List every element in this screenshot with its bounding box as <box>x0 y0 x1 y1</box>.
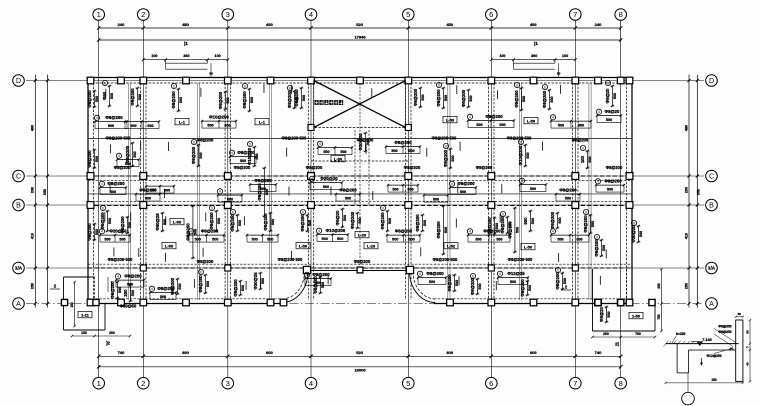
right dimension lines <box>688 75 690 308</box>
top dimension tier 1 <box>99 27 621 29</box>
svg-text:500: 500 <box>104 238 110 242</box>
svg-text:B: B <box>709 203 714 210</box>
rebar annotation (vertical) <box>447 274 459 292</box>
svg-text:500: 500 <box>499 123 505 127</box>
svg-text:500: 500 <box>469 95 473 101</box>
svg-text:Φ8@200: Φ8@200 <box>105 115 123 120</box>
beam tag <box>255 118 269 124</box>
svg-text:500: 500 <box>388 218 392 224</box>
svg-text:7: 7 <box>573 10 577 19</box>
column <box>308 77 315 84</box>
rebar annotation (vertical) <box>230 209 242 232</box>
column <box>405 125 411 131</box>
svg-text:3: 3 <box>226 10 230 19</box>
corridor beam pair <box>354 130 356 205</box>
svg-text:L-1: L-1 <box>259 120 266 125</box>
rebar annotation <box>249 178 277 191</box>
svg-text:A: A <box>16 301 21 308</box>
svg-text:500: 500 <box>261 278 265 284</box>
svg-text:Φ8@200: Φ8@200 <box>436 221 441 239</box>
svg-text:4: 4 <box>306 273 308 277</box>
rebar annotation <box>519 178 547 191</box>
rebar annotation <box>449 181 477 194</box>
column <box>617 299 624 306</box>
svg-text:Φ8@200: Φ8@200 <box>197 259 214 264</box>
svg-text:6: 6 <box>607 81 609 85</box>
svg-text:500: 500 <box>565 197 571 201</box>
svg-text:600: 600 <box>530 350 537 355</box>
rebar annotation (vertical) <box>583 209 595 234</box>
svg-text:4: 4 <box>499 272 501 276</box>
svg-text:740: 740 <box>595 350 602 355</box>
svg-text:L-1: L-1 <box>179 120 186 125</box>
svg-text:500: 500 <box>226 97 230 103</box>
svg-text:Φ8@200: Φ8@200 <box>426 271 444 276</box>
rebar annotation <box>217 189 243 202</box>
svg-text:L-50: L-50 <box>299 244 308 249</box>
rebar annotation (vertical) <box>507 207 519 253</box>
svg-text:290: 290 <box>684 187 688 193</box>
svg-text:Φ8@350: Φ8@350 <box>718 324 731 328</box>
svg-text:500: 500 <box>321 282 325 288</box>
column <box>280 299 287 306</box>
column <box>267 299 274 306</box>
svg-text:4: 4 <box>597 180 599 184</box>
rebar annotation (vertical) <box>542 84 554 110</box>
svg-text:500: 500 <box>392 188 398 192</box>
svg-text:500: 500 <box>108 218 112 224</box>
svg-text:500: 500 <box>451 155 455 161</box>
svg-text:Φ30@20: Φ30@20 <box>631 225 636 243</box>
svg-text:Φ8@200: Φ8@200 <box>287 90 292 108</box>
column <box>61 299 67 305</box>
svg-text:250: 250 <box>684 283 688 289</box>
rebar annotation <box>467 229 511 242</box>
column <box>572 77 579 84</box>
rebar annotation (vertical) <box>520 279 532 297</box>
svg-text:500: 500 <box>602 245 606 251</box>
rebar annotation <box>417 271 447 284</box>
svg-text:Φ12@350: Φ12@350 <box>706 354 721 358</box>
svg-text:500: 500 <box>526 152 530 158</box>
column <box>140 202 147 209</box>
column <box>224 202 231 209</box>
rebar annotation (vertical) <box>191 139 203 167</box>
rebar annotation (vertical) <box>120 216 132 234</box>
svg-text:500: 500 <box>613 93 617 99</box>
svg-text:200: 200 <box>123 289 128 297</box>
column <box>140 77 147 84</box>
rebar annotation <box>423 194 449 202</box>
svg-text:240: 240 <box>595 22 602 27</box>
svg-text:500: 500 <box>409 238 415 242</box>
svg-text:Φ8@200: Φ8@200 <box>413 88 418 106</box>
rebar annotation (vertical) <box>358 132 370 152</box>
svg-text:Φ8@200·500: Φ8@200·500 <box>282 136 307 141</box>
rebar annotation <box>316 228 349 241</box>
svg-text:500: 500 <box>476 123 482 127</box>
svg-text:Φ8@200: Φ8@200 <box>461 89 466 107</box>
svg-text:500: 500 <box>179 97 183 103</box>
svg-text:500: 500 <box>138 94 142 100</box>
svg-text:500: 500 <box>252 238 258 242</box>
svg-text:Φ8@200: Φ8@200 <box>198 275 203 293</box>
svg-text:1/A: 1/A <box>708 266 716 271</box>
left wing dimensions <box>74 282 76 326</box>
svg-text:C: C <box>16 174 21 181</box>
svg-text:Φ8@200: Φ8@200 <box>130 88 135 106</box>
rebar annotation (vertical) <box>518 139 530 167</box>
column <box>93 299 99 305</box>
rebar annotation (vertical) <box>171 83 183 112</box>
svg-text:6: 6 <box>249 142 251 146</box>
rebar annotation <box>497 271 529 284</box>
rebar annotation (vertical) <box>125 142 137 167</box>
svg-text:500: 500 <box>558 217 562 223</box>
svg-text:Φ8@200: Φ8@200 <box>395 229 413 234</box>
svg-text:Φ8@200: Φ8@200 <box>606 165 623 170</box>
svg-text:(×): (×) <box>730 347 734 351</box>
column <box>87 299 94 306</box>
svg-text:600: 600 <box>266 350 273 355</box>
svg-text:50: 50 <box>557 72 561 76</box>
rebar annotation (vertical) <box>300 209 312 232</box>
svg-text:Φ20@20: Φ20@20 <box>358 133 363 151</box>
svg-text:6: 6 <box>544 85 546 89</box>
entrance arc right <box>409 271 435 303</box>
beam tag <box>296 242 310 248</box>
svg-text:500: 500 <box>550 96 554 102</box>
svg-text:Φ50@50: Φ50@50 <box>120 304 137 309</box>
beam tag <box>175 118 189 124</box>
svg-text:3: 3 <box>226 379 230 388</box>
svg-text:4: 4 <box>552 230 554 234</box>
svg-text:4: 4 <box>96 116 98 120</box>
rebar annotation <box>124 120 160 128</box>
svg-text:500: 500 <box>119 238 125 242</box>
rebar annotation <box>335 188 361 201</box>
svg-text:Φ8@200: Φ8@200 <box>197 138 214 143</box>
rebar annotation <box>595 179 625 192</box>
rebar annotation (vertical) <box>335 208 347 228</box>
entrance recess bottom edge <box>307 270 410 272</box>
svg-text:Φ8@200: Φ8@200 <box>306 165 323 170</box>
svg-text:500: 500 <box>607 188 613 192</box>
svg-text:L-52: L-52 <box>447 244 456 249</box>
svg-text:L-20: L-20 <box>358 233 367 238</box>
svg-text:6: 6 <box>489 379 493 388</box>
svg-text:Φ8@200: Φ8@200 <box>436 89 441 107</box>
rebar annotation <box>99 229 131 242</box>
right wing dimensions <box>593 336 656 338</box>
svg-text:500: 500 <box>250 97 254 103</box>
svg-text:Φ8@200: Φ8@200 <box>242 91 247 109</box>
rebar annotation <box>386 229 421 242</box>
svg-text:750: 750 <box>657 314 661 320</box>
svg-text:6: 6 <box>472 274 474 278</box>
svg-text:500: 500 <box>429 280 435 284</box>
rebar annotation (vertical) <box>380 205 392 232</box>
svg-text:500: 500 <box>510 280 516 284</box>
svg-text:500: 500 <box>160 295 166 299</box>
svg-text:4: 4 <box>469 115 471 119</box>
svg-text:2: 2 <box>141 379 145 388</box>
svg-text:|1: |1 <box>184 41 188 46</box>
svg-text:600: 600 <box>446 350 453 355</box>
axis bubbles left <box>13 75 25 87</box>
svg-text:Φ8@200: Φ8@200 <box>87 223 92 241</box>
svg-text:Φ8@200: Φ8@200 <box>394 140 412 145</box>
svg-text:500: 500 <box>423 220 427 226</box>
svg-text:Φ8@200: Φ8@200 <box>404 165 421 170</box>
rebar annotation <box>246 234 279 242</box>
svg-text:500: 500 <box>110 190 116 194</box>
column <box>140 173 147 180</box>
column <box>572 265 578 271</box>
svg-text:Φ8@200: Φ8@200 <box>572 138 589 143</box>
svg-text:Φ8@200: Φ8@200 <box>125 145 130 163</box>
svg-text:6: 6 <box>200 270 202 274</box>
svg-text:Φ8@200: Φ8@200 <box>559 188 577 193</box>
svg-text:Φ8@200: Φ8@200 <box>110 281 115 299</box>
rebar annotation <box>385 140 421 153</box>
column <box>595 299 602 306</box>
column <box>118 77 125 84</box>
column <box>530 299 537 306</box>
svg-text:360: 360 <box>183 54 189 58</box>
svg-text:4: 4 <box>319 142 321 146</box>
svg-text:500: 500 <box>421 94 425 100</box>
column <box>488 265 494 271</box>
svg-text:500: 500 <box>178 283 182 289</box>
column <box>357 267 363 273</box>
rebar annotation <box>387 184 419 192</box>
building top edge beam <box>88 77 632 79</box>
svg-text:Φ8@200: Φ8@200 <box>457 181 475 186</box>
svg-text:480: 480 <box>684 125 688 131</box>
column <box>626 77 633 84</box>
svg-text:Φ8@20: Φ8@20 <box>335 210 340 225</box>
svg-text:Φ8@350: Φ8@350 <box>718 330 731 334</box>
svg-text:6: 6 <box>520 140 522 144</box>
svg-text:4: 4 <box>521 179 523 183</box>
left dimension lines <box>34 75 36 308</box>
column <box>183 299 190 306</box>
svg-text:150: 150 <box>70 302 74 308</box>
beam section detail <box>664 312 752 405</box>
svg-text:500: 500 <box>130 124 136 128</box>
svg-text:Φ8@200: Φ8@200 <box>139 188 157 193</box>
svg-text:Φ8@200: Φ8@200 <box>485 114 503 119</box>
rebar annotation <box>550 115 592 128</box>
rebar annotation <box>550 229 590 242</box>
column <box>87 202 94 209</box>
svg-text:4: 4 <box>101 230 103 234</box>
svg-text:Φ8@20: Φ8@20 <box>605 88 610 103</box>
svg-text:500: 500 <box>238 220 242 226</box>
svg-text:Φ8@200: Φ8@200 <box>114 165 131 170</box>
beam tag <box>443 116 457 122</box>
svg-text:500: 500 <box>508 222 512 228</box>
svg-text:Φ8@200: Φ8@200 <box>218 91 223 109</box>
svg-text:200: 200 <box>603 332 609 336</box>
rebar annotation (vertical) <box>257 167 269 217</box>
rebar annotation (vertical) <box>130 87 142 107</box>
column <box>225 265 231 271</box>
svg-text:Φ8@200: Φ8@200 <box>124 274 142 279</box>
column <box>183 77 190 84</box>
svg-text:500: 500 <box>322 237 328 241</box>
svg-text:100: 100 <box>151 54 157 58</box>
column <box>308 173 315 180</box>
svg-text:500: 500 <box>522 96 526 102</box>
svg-text:500: 500 <box>563 278 567 284</box>
svg-text:Φ8@200: Φ8@200 <box>263 213 268 231</box>
svg-text:Φ8@200: Φ8@200 <box>209 212 214 230</box>
rebar annotation (vertical) <box>209 205 221 232</box>
axis bubbles right <box>706 75 718 87</box>
rebar annotation (vertical) <box>555 267 567 290</box>
svg-text:Φ8@200: Φ8@200 <box>476 165 493 170</box>
column <box>267 77 274 84</box>
rebar annotation (vertical) <box>514 82 526 111</box>
rebar annotation (vertical) <box>170 277 182 295</box>
svg-text:6: 6 <box>173 84 175 88</box>
rebar annotation <box>596 109 622 122</box>
beam tag <box>524 117 538 123</box>
svg-text:40: 40 <box>745 362 749 366</box>
column <box>649 299 655 305</box>
svg-text:Φ30@35: Φ30@35 <box>253 272 258 290</box>
svg-text:Φ8@200: Φ8@200 <box>354 259 371 264</box>
svg-text:Φ50@28: Φ50@28 <box>155 213 160 231</box>
column <box>308 125 314 131</box>
rebar annotation <box>135 188 161 201</box>
column <box>225 299 232 306</box>
svg-text:Φ10@200: Φ10@200 <box>209 115 229 120</box>
svg-text:500: 500 <box>118 287 122 293</box>
column <box>488 299 495 306</box>
svg-text:240: 240 <box>118 22 125 27</box>
svg-text:4: 4 <box>451 182 453 186</box>
svg-text:100: 100 <box>562 54 568 58</box>
svg-text:500: 500 <box>606 118 612 122</box>
svg-text:950: 950 <box>697 189 701 195</box>
rebar annotation (vertical) <box>487 217 499 235</box>
rebar annotation (vertical) <box>253 272 265 290</box>
svg-text:Φ8@200: Φ8@200 <box>87 90 92 108</box>
column <box>405 173 412 180</box>
svg-text:Φ8@200: Φ8@200 <box>237 150 255 155</box>
svg-text:1/A: 1/A <box>15 266 23 271</box>
svg-text:Φ8@200: Φ8@200 <box>470 277 475 295</box>
canopy outline <box>513 60 515 69</box>
rebar annotation <box>99 181 127 194</box>
bottom dimension tier 1 <box>99 355 621 357</box>
left stair wing outline <box>64 276 95 278</box>
svg-text:18000: 18000 <box>354 368 366 373</box>
svg-text:Φ8@200: Φ8@200 <box>171 91 176 109</box>
svg-text:Φ8@200: Φ8@200 <box>483 229 501 234</box>
svg-text:450: 450 <box>446 22 453 27</box>
svg-text:500: 500 <box>308 220 312 226</box>
svg-text:520: 520 <box>356 22 363 27</box>
svg-text:Φ8@200: Φ8@200 <box>555 272 560 290</box>
svg-text:Φ8@200: Φ8@200 <box>583 215 588 233</box>
svg-text:Φ8@200: Φ8@200 <box>380 212 385 230</box>
svg-text:500: 500 <box>194 229 198 235</box>
rebar annotation (vertical) <box>242 83 254 112</box>
svg-text:480: 480 <box>31 125 35 131</box>
rebar annotation (vertical) <box>461 89 473 108</box>
rebar annotation (vertical) <box>155 212 167 232</box>
svg-text:6: 6 <box>445 144 447 148</box>
svg-text:Φ8@200: Φ8@200 <box>120 216 125 234</box>
svg-text:500: 500 <box>639 231 643 237</box>
svg-text:450: 450 <box>266 22 273 27</box>
svg-text:6: 6 <box>557 268 559 272</box>
building bottom edge right part <box>434 303 632 305</box>
svg-text:6: 6 <box>596 235 598 239</box>
svg-text:Φ8@200: Φ8@200 <box>339 188 357 193</box>
svg-text:450: 450 <box>182 22 189 27</box>
svg-text:500: 500 <box>217 218 221 224</box>
svg-text:410: 410 <box>31 233 35 239</box>
svg-text:Φ8@20: Φ8@20 <box>605 109 620 114</box>
secondary mid-bay beams <box>127 83 129 300</box>
svg-text:Φ8@200: Φ8@200 <box>254 178 272 183</box>
svg-text:500: 500 <box>475 238 481 242</box>
svg-text:500: 500 <box>95 229 99 235</box>
building bottom edge left part <box>88 303 284 305</box>
column <box>488 77 495 84</box>
column <box>87 77 94 84</box>
svg-text:6: 6 <box>104 81 106 85</box>
rebar annotation (vertical) <box>580 145 592 169</box>
svg-text:500: 500 <box>340 150 346 154</box>
svg-text:500: 500 <box>147 124 153 128</box>
svg-text:500: 500 <box>523 217 528 225</box>
rebar annotation (vertical) <box>436 82 448 109</box>
building left edge beam <box>87 78 89 304</box>
svg-text:250: 250 <box>31 283 35 289</box>
svg-text:L-50: L-50 <box>527 119 536 124</box>
rebar annotation (vertical) <box>100 205 112 232</box>
svg-text:500: 500 <box>302 95 306 101</box>
svg-text:450: 450 <box>530 22 537 27</box>
horizontal grid axes D C B 1/A A <box>26 80 704 82</box>
rebar annotation <box>317 141 353 154</box>
column <box>626 173 633 180</box>
svg-text:Φ8@200: Φ8@200 <box>447 274 452 292</box>
rebar annotation (vertical) <box>233 279 245 297</box>
svg-text:L-50: L-50 <box>524 245 533 250</box>
svg-text:2: 2 <box>141 10 145 19</box>
svg-text:4: 4 <box>311 177 313 181</box>
svg-text:4: 4 <box>151 287 153 291</box>
svg-text:500: 500 <box>576 238 582 242</box>
svg-text:500: 500 <box>95 156 99 162</box>
svg-text:8: 8 <box>619 10 623 19</box>
svg-text:L-50: L-50 <box>446 118 455 123</box>
svg-text:500: 500 <box>433 198 439 202</box>
column <box>303 266 310 273</box>
svg-text:4: 4 <box>318 229 320 233</box>
rebar annotation <box>188 229 225 242</box>
svg-text:6: 6 <box>516 83 518 87</box>
svg-text:Φ10@200: Φ10@200 <box>518 145 523 165</box>
svg-text:Φ8@200: Φ8@200 <box>514 90 519 108</box>
